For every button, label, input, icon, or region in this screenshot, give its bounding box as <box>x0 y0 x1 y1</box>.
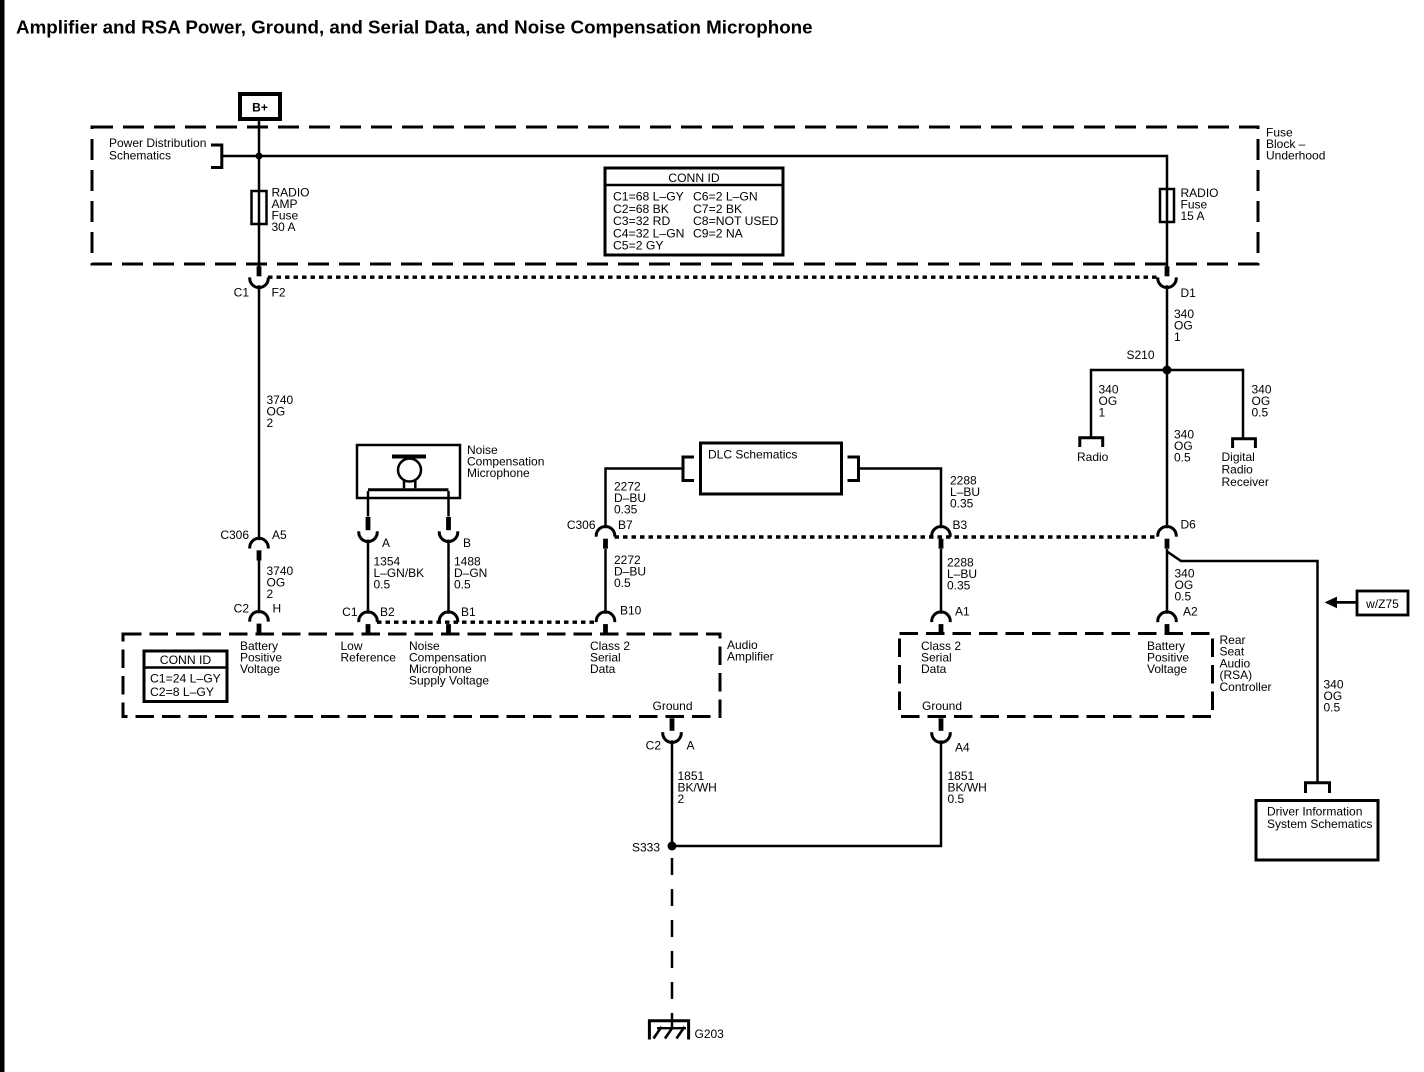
svg-text:1: 1 <box>1099 406 1106 420</box>
svg-text:CONN ID: CONN ID <box>668 171 720 185</box>
svg-text:S210: S210 <box>1126 348 1154 362</box>
svg-text:Voltage: Voltage <box>240 662 280 676</box>
wire label 3740 OG 2 lower <box>267 564 294 601</box>
wire B+ down through RADIO AMP fuse <box>258 119 261 267</box>
svg-text:2: 2 <box>267 416 274 430</box>
connector B1 <box>439 605 476 635</box>
svg-text:Data: Data <box>921 662 947 676</box>
svg-text:A: A <box>687 739 695 753</box>
wire label 340 OG 0.5 a2 <box>1175 567 1195 604</box>
rear seat audio RSA controller dashed box <box>900 633 1272 717</box>
wire label 1354 L-GN/BK 0.5 <box>374 555 425 592</box>
fuse block underhood dashed box <box>92 126 1325 265</box>
connector B mic <box>439 517 471 550</box>
connector A1 <box>932 605 970 635</box>
power distribution reference bracket <box>109 136 222 169</box>
svg-text:A5: A5 <box>272 528 287 542</box>
svg-text:C2: C2 <box>646 739 662 753</box>
svg-text:Underhood: Underhood <box>1266 149 1325 163</box>
svg-text:0.5: 0.5 <box>454 578 471 592</box>
connector B3 <box>932 518 968 549</box>
wire S210 to Radio <box>1090 369 1093 437</box>
svg-text:Data: Data <box>590 662 616 676</box>
fuse RADIO AMP 30A <box>252 186 310 235</box>
svg-text:0.5: 0.5 <box>948 792 965 806</box>
connector D6 <box>1158 518 1196 549</box>
microphone symbol <box>368 455 449 490</box>
svg-text:C1=24 L–GY: C1=24 L–GY <box>150 672 221 686</box>
svg-text:D1: D1 <box>1181 286 1197 300</box>
wire D1 to S210 <box>1166 285 1169 370</box>
wire label 340 OG 0.5 drr <box>1252 383 1272 420</box>
svg-text:B: B <box>463 536 471 550</box>
svg-text:15 A: 15 A <box>1181 209 1205 223</box>
wire branch to driver information <box>1167 552 1318 783</box>
svg-text:0.5: 0.5 <box>1252 406 1269 420</box>
svg-text:A: A <box>382 536 390 550</box>
node junction at B+ wire <box>256 153 263 160</box>
svg-text:A1: A1 <box>955 605 970 619</box>
inline harness dotted row 1 <box>268 276 1158 279</box>
svg-text:Microphone: Microphone <box>467 466 530 480</box>
driver information system schematics box <box>1256 801 1378 861</box>
svg-text:D6: D6 <box>1181 518 1197 532</box>
noise compensation microphone box <box>357 443 544 498</box>
svg-text:1: 1 <box>1174 330 1181 344</box>
connector C1 F2 <box>234 266 286 299</box>
CONN ID table amplifier <box>144 651 227 702</box>
wire A4 to S333 <box>672 740 941 846</box>
svg-text:0.5: 0.5 <box>1324 701 1341 715</box>
wire label 1851 BK/WH 2 <box>678 769 717 806</box>
inline harness dotted row 2 <box>615 535 1158 538</box>
svg-text:B+: B+ <box>252 101 268 115</box>
svg-text:30 A: 30 A <box>272 220 296 234</box>
svg-text:B3: B3 <box>953 518 968 532</box>
inline harness dotted row 3 <box>377 621 597 624</box>
svg-text:Reference: Reference <box>341 650 397 664</box>
wire B3 to A1 <box>940 549 943 614</box>
svg-text:0.5: 0.5 <box>1174 451 1191 465</box>
svg-text:H: H <box>273 602 282 616</box>
svg-text:Receiver: Receiver <box>1222 475 1269 489</box>
wire DLC to B7 <box>606 469 684 529</box>
wire label 3740 OG 2 upper <box>267 393 294 430</box>
wire C2 A to S333 <box>671 740 674 846</box>
connector B10 <box>596 604 641 635</box>
wire S210 branch horizontal <box>1091 369 1243 372</box>
fuse RADIO 15A <box>1160 186 1219 223</box>
svg-text:B2: B2 <box>380 605 395 619</box>
wire label 1851 BK/WH 0.5 <box>948 769 987 806</box>
battery B+ terminal <box>240 94 280 119</box>
wire DLC to B3 <box>859 469 942 529</box>
pin label class 2 serial data amp <box>590 639 630 676</box>
svg-text:DLC Schematics: DLC Schematics <box>708 448 797 462</box>
svg-text:C9=2 NA: C9=2 NA <box>693 226 744 240</box>
wire C306 to C2 H <box>258 560 261 613</box>
svg-text:Schematics: Schematics <box>109 149 171 163</box>
svg-text:S333: S333 <box>632 841 660 855</box>
svg-text:w/Z75: w/Z75 <box>1365 597 1399 611</box>
connector C1 B2 <box>342 605 395 635</box>
connector D1 <box>1158 266 1196 300</box>
svg-text:F2: F2 <box>272 286 286 300</box>
wire B+ feed horizontal <box>222 155 1167 158</box>
svg-text:Amplifier: Amplifier <box>727 650 774 664</box>
wire C1 to C306 <box>258 285 261 540</box>
wire mic pin B lead <box>447 491 450 517</box>
DLC schematics box <box>701 443 842 494</box>
wire S210 to D6 <box>1166 370 1169 528</box>
pin label battery positive voltage amp <box>240 639 282 676</box>
wire S210 to Digital Radio Receiver <box>1242 369 1245 438</box>
svg-text:0.35: 0.35 <box>947 579 971 593</box>
svg-text:Supply Voltage: Supply Voltage <box>409 673 489 687</box>
svg-text:A2: A2 <box>1183 605 1198 619</box>
connector A2 <box>1158 605 1198 635</box>
wire label 2272 D-BU 0.35 <box>614 480 646 517</box>
svg-text:B10: B10 <box>620 604 642 618</box>
svg-text:0.35: 0.35 <box>950 497 974 511</box>
wire label 340 OG 1 radio <box>1099 383 1119 420</box>
connector C2 A ground <box>646 718 695 752</box>
pin label battery positive voltage rsa <box>1147 639 1189 676</box>
svg-text:C306: C306 <box>220 528 249 542</box>
DLC left bracket <box>683 457 694 481</box>
svg-text:C306: C306 <box>567 518 596 532</box>
svg-text:Voltage: Voltage <box>1147 662 1187 676</box>
svg-text:C1: C1 <box>342 605 358 619</box>
wire label 2288 L-BU 0.35 lower <box>947 556 977 593</box>
connector C306 A5 <box>220 528 287 561</box>
svg-text:C1: C1 <box>234 286 250 300</box>
wire D6 to A2 <box>1166 549 1169 614</box>
wire B7 to B10 <box>604 549 607 614</box>
wire mic pin A lead <box>367 491 370 517</box>
svg-text:0.5: 0.5 <box>374 578 391 592</box>
svg-text:Radio: Radio <box>1077 450 1109 464</box>
svg-text:2: 2 <box>267 587 274 601</box>
svg-text:B1: B1 <box>461 605 476 619</box>
off-page bracket to DIS <box>1306 783 1330 793</box>
connector A4 ground <box>932 718 970 754</box>
svg-text:0.5: 0.5 <box>614 576 631 590</box>
wire B to B1 <box>447 540 450 614</box>
wire label 340 OG 0.5 right <box>1324 678 1344 715</box>
off-page connector Radio <box>1077 438 1109 464</box>
audio amplifier dashed box <box>123 634 774 717</box>
pin label low reference <box>341 639 397 665</box>
pin label noise compensation microphone supply voltage <box>409 639 489 688</box>
connector C306 B7 <box>567 518 633 549</box>
connector C2 H <box>234 602 282 635</box>
svg-text:C2=8 L–GY: C2=8 L–GY <box>150 685 214 699</box>
svg-text:System Schematics: System Schematics <box>1267 817 1372 831</box>
svg-text:CONN ID: CONN ID <box>160 653 212 667</box>
wire label 340 OG 0.5 mid <box>1174 428 1194 465</box>
connector A mic <box>359 517 390 550</box>
svg-text:C2: C2 <box>234 602 250 616</box>
DLC right bracket <box>848 457 859 481</box>
svg-text:Controller: Controller <box>1220 680 1272 694</box>
wire right drop to RADIO fuse <box>1166 155 1169 267</box>
svg-text:Ground: Ground <box>653 699 693 713</box>
pin label class 2 serial data rsa <box>921 639 961 676</box>
svg-text:B7: B7 <box>618 518 633 532</box>
splice S333 <box>632 841 677 855</box>
w/Z75 option tag <box>1325 591 1408 615</box>
svg-text:2: 2 <box>678 792 685 806</box>
splice S210 <box>1126 348 1171 375</box>
svg-text:A4: A4 <box>955 741 970 755</box>
wire A to B2 <box>367 540 370 614</box>
CONN ID table fuse block <box>605 168 783 255</box>
ground G203 <box>649 1021 724 1041</box>
svg-text:Amplifier and RSA Power, Groun: Amplifier and RSA Power, Ground, and Ser… <box>16 17 813 38</box>
wire label 340 OG 1 main <box>1174 307 1194 344</box>
svg-text:Ground: Ground <box>922 699 962 713</box>
off-page connector Digital Radio Receiver <box>1222 439 1269 489</box>
svg-text:0.35: 0.35 <box>614 503 638 517</box>
svg-text:G203: G203 <box>695 1027 725 1041</box>
wire label 2272 D-BU 0.5 <box>614 553 646 590</box>
svg-text:0.5: 0.5 <box>1175 590 1192 604</box>
wire label 2288 L-BU 0.35 upper <box>950 474 980 511</box>
svg-text:C5=2 GY: C5=2 GY <box>613 239 663 253</box>
wire label 1488 D-GN 0.5 <box>454 555 487 592</box>
wire S333 to G203 dashed <box>671 858 674 1013</box>
